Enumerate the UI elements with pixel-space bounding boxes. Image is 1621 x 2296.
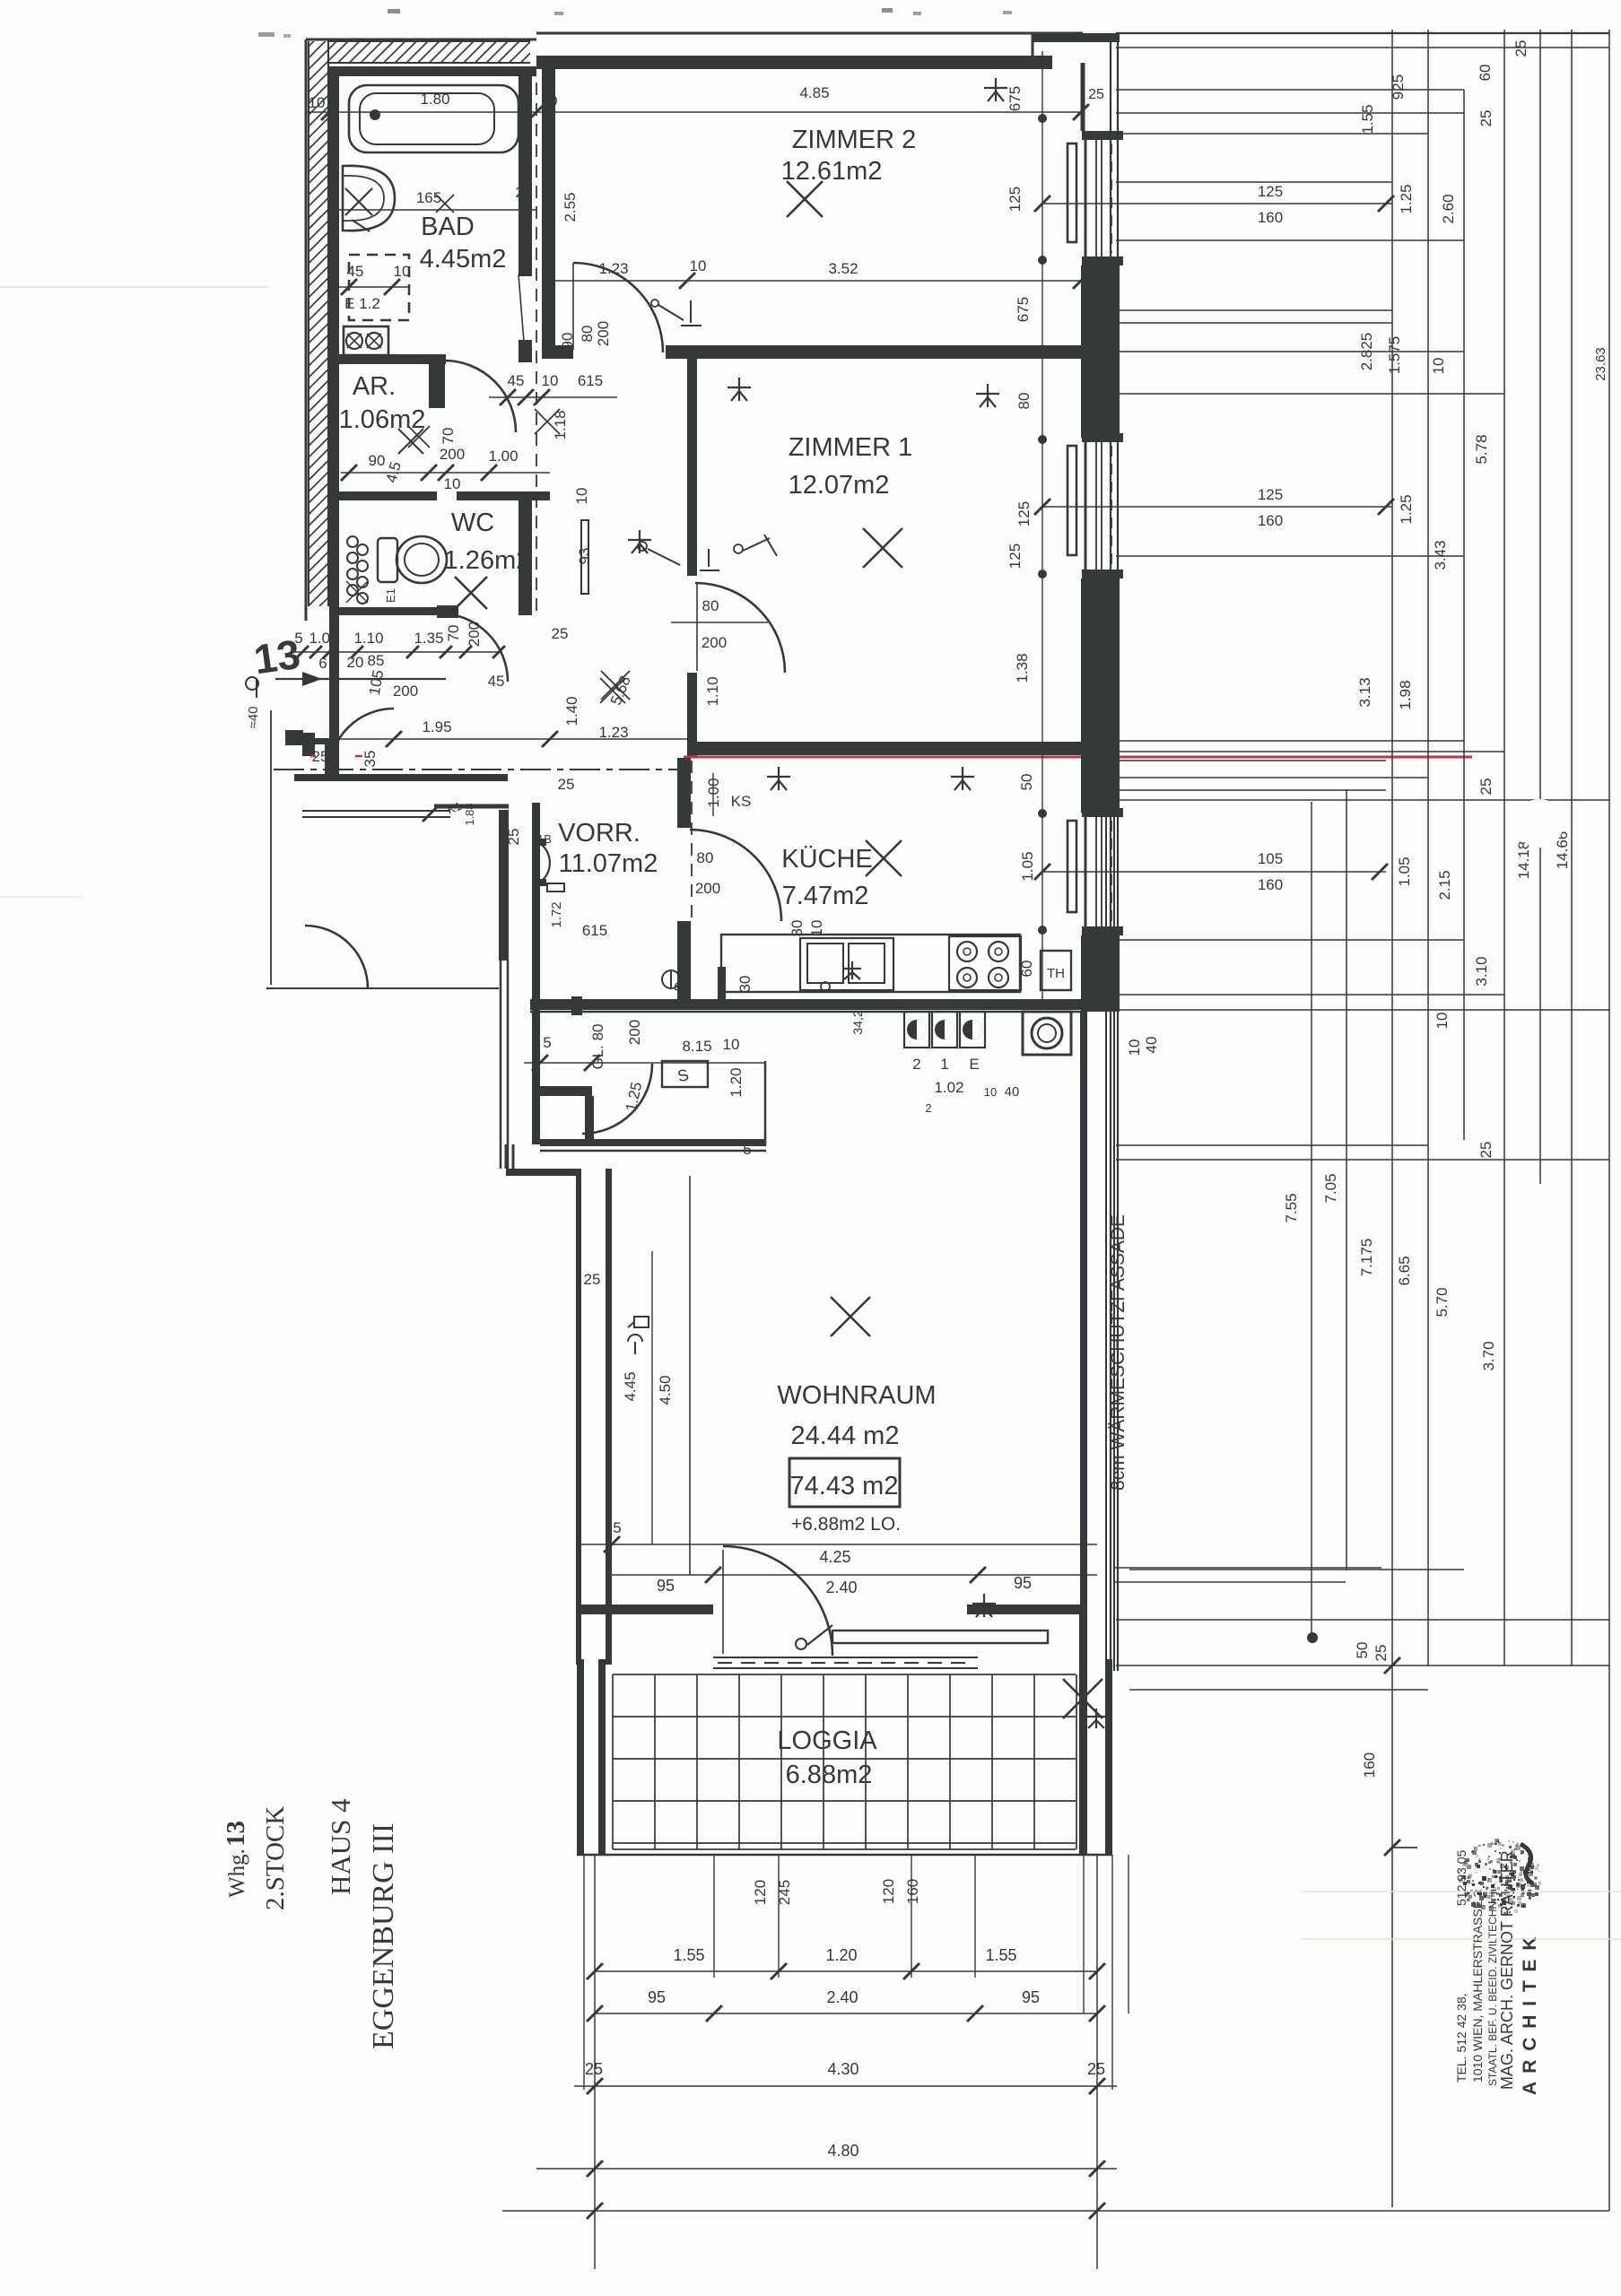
svg-text:3.52: 3.52 <box>828 260 858 277</box>
svg-text:6: 6 <box>318 655 327 672</box>
stair left line <box>270 710 272 985</box>
svg-text:1.10: 1.10 <box>704 676 721 706</box>
svg-text:A R C H I T E K: A R C H I T E K <box>1520 1935 1540 2095</box>
svg-text:4.45: 4.45 <box>622 1371 639 1401</box>
svg-text:2: 2 <box>925 1101 931 1115</box>
svg-text:90: 90 <box>369 452 386 469</box>
right wall pier 3 <box>1081 578 1120 813</box>
corridor dashed line upper <box>536 83 537 617</box>
svg-text:80: 80 <box>702 597 719 614</box>
svg-text:3.43: 3.43 <box>1432 540 1449 570</box>
right horiz lines <box>1116 181 1392 183</box>
door marks corridor <box>648 549 680 565</box>
entry arrow <box>302 672 322 686</box>
svg-text:7.05: 7.05 <box>1322 1173 1339 1203</box>
svg-text:25: 25 <box>516 184 533 201</box>
red scan line <box>684 756 1472 759</box>
svg-text:24.44 m2: 24.44 m2 <box>791 1422 900 1450</box>
svg-text:12.07m2: 12.07m2 <box>789 471 890 500</box>
svg-text:25: 25 <box>1477 110 1495 127</box>
svg-text:200: 200 <box>595 321 612 346</box>
svg-text:10: 10 <box>1434 1013 1451 1030</box>
svg-text:1.98: 1.98 <box>1397 680 1414 709</box>
svg-text:4.45m2: 4.45m2 <box>420 245 507 274</box>
svg-text:1: 1 <box>940 1056 948 1073</box>
svg-text:40: 40 <box>1143 1037 1160 1054</box>
svg-text:615: 615 <box>578 372 603 389</box>
wall bath right <box>519 75 532 276</box>
right wall top corner <box>1081 63 1085 131</box>
svg-text:40: 40 <box>1005 1084 1020 1100</box>
wall wohnraum bottom right <box>967 1605 1087 1614</box>
loggia left wall <box>577 1659 584 1855</box>
svg-text:60: 60 <box>1018 961 1035 978</box>
svg-text:1.88: 1.88 <box>463 803 476 825</box>
svg-text:TEL. 512 42 38,: TEL. 512 42 38, <box>1454 1993 1468 2083</box>
window room1 <box>1082 433 1123 442</box>
svg-text:E: E <box>969 1056 979 1073</box>
svg-text:74.43 m2: 74.43 m2 <box>790 1472 899 1500</box>
kitchen counter <box>721 935 1020 992</box>
svg-text:25: 25 <box>585 2060 603 2078</box>
svg-text:95: 95 <box>1014 1574 1032 1592</box>
survey mark <box>778 767 780 790</box>
svg-text:160: 160 <box>1258 209 1283 226</box>
wall closet right <box>764 1061 767 1146</box>
right window dims <box>1042 203 1392 204</box>
svg-text:95: 95 <box>648 1988 666 2006</box>
svg-text:85: 85 <box>368 652 385 669</box>
wohnraum dim line <box>612 1574 1097 1576</box>
svg-text:80: 80 <box>579 326 596 343</box>
svg-text:125: 125 <box>1258 183 1283 200</box>
svg-text:STAATL. BEF. U. BEEID. ZIVILTE: STAATL. BEF. U. BEEID. ZIVILTECHN. <box>1486 1899 1499 2086</box>
svg-text:WC: WC <box>451 509 494 537</box>
svg-text:125: 125 <box>1007 187 1024 212</box>
svg-text:8.15: 8.15 <box>682 1038 711 1055</box>
loggia floor tiles <box>612 1674 614 1849</box>
svg-text:5.78: 5.78 <box>1473 434 1490 464</box>
wall wohnraum right <box>1080 1012 1087 1613</box>
wall room2 left <box>542 69 555 352</box>
svg-text:512 93 05: 512 93 05 <box>1454 1850 1468 1906</box>
svg-text:MAG. ARCH. GERNOT RAUTER: MAG. ARCH. GERNOT RAUTER <box>1498 1850 1516 2090</box>
svg-text:25: 25 <box>1512 40 1529 57</box>
wc door arc <box>440 613 508 682</box>
svg-text:200: 200 <box>393 683 418 700</box>
svg-text:KÜCHE: KÜCHE <box>781 845 873 874</box>
svg-text:80: 80 <box>1015 393 1033 410</box>
svg-text:30: 30 <box>736 976 754 993</box>
svg-text:VORR.: VORR. <box>558 819 641 848</box>
kitchen door arc <box>690 830 781 921</box>
wall wc right <box>519 500 532 615</box>
svg-text:10: 10 <box>542 372 559 389</box>
right wall pier 2 <box>1081 265 1120 438</box>
svg-text:7.55: 7.55 <box>1283 1193 1300 1222</box>
loggia threshold <box>713 1657 978 1658</box>
svg-text:1.05: 1.05 <box>1019 851 1036 881</box>
top wall of bath <box>329 66 536 76</box>
punch hole <box>1515 799 1564 848</box>
loggia right wall <box>1079 1613 1087 1855</box>
outer wall vorr jog <box>505 1144 508 1169</box>
svg-text:95: 95 <box>1022 1988 1040 2006</box>
svg-text:10: 10 <box>690 257 707 274</box>
svg-text:25: 25 <box>584 1271 601 1288</box>
svg-text:1.20: 1.20 <box>728 1067 745 1097</box>
svg-text:1.55: 1.55 <box>985 1946 1016 1964</box>
svg-text:25: 25 <box>1373 1645 1390 1662</box>
wall storage/wc <box>329 491 437 500</box>
svg-text:8cm WÄRMESCHUTZFASSADE: 8cm WÄRMESCHUTZFASSADE <box>1108 1214 1129 1491</box>
svg-text:13: 13 <box>222 1821 250 1847</box>
svg-text:160: 160 <box>1361 1752 1378 1778</box>
survey mark <box>995 78 997 101</box>
svg-text:160: 160 <box>904 1879 921 1904</box>
svg-text:245: 245 <box>776 1880 793 1905</box>
svg-text:14.18: 14.18 <box>1515 841 1532 880</box>
wall kitchen bottom <box>530 999 1081 1010</box>
bath door arc <box>444 361 516 432</box>
svg-text:5: 5 <box>743 1141 751 1158</box>
svg-text:45: 45 <box>508 372 525 389</box>
svg-text:4.25: 4.25 <box>819 1548 850 1566</box>
svg-text:925: 925 <box>1390 74 1407 100</box>
svg-text:20: 20 <box>347 654 364 671</box>
svg-text:10: 10 <box>723 1036 740 1053</box>
bathtub <box>349 85 519 152</box>
bottom dim row4 <box>536 2168 1117 2170</box>
wall wohnraum left outer <box>576 1176 581 1665</box>
door z2 arc <box>573 263 663 352</box>
survey mark <box>983 1594 985 1617</box>
bottom line <box>502 2210 1609 2212</box>
svg-text:4.30: 4.30 <box>827 2060 858 2078</box>
washer in bath <box>344 326 388 355</box>
svg-text:50: 50 <box>1018 774 1035 791</box>
svg-text:1.10: 1.10 <box>353 630 383 647</box>
bottom dim row1 <box>595 1970 1097 1972</box>
entry step walls <box>285 730 303 745</box>
loggia bottom line <box>577 1854 1112 1857</box>
svg-text:1B: 1B <box>537 832 552 846</box>
wall wohnraum left inner <box>606 1169 612 1665</box>
svg-text:105: 105 <box>1258 850 1283 867</box>
bottom dim row2 <box>595 2013 1097 2014</box>
hatched exterior wall top <box>327 41 530 63</box>
lamp symbol <box>662 970 680 988</box>
left inner wall <box>329 66 339 775</box>
svg-text:160: 160 <box>1258 876 1283 893</box>
svg-text:KS: KS <box>731 793 752 810</box>
svg-text:45: 45 <box>488 673 505 690</box>
svg-text:10: 10 <box>309 94 326 111</box>
svg-text:120: 120 <box>752 1880 769 1905</box>
svg-text:2.40: 2.40 <box>826 1988 858 2006</box>
kitchen stove <box>949 936 1021 990</box>
wall between rooms 1+2 <box>542 345 573 359</box>
right verticals mid <box>1312 801 1621 803</box>
svg-text:25: 25 <box>1087 2060 1105 2078</box>
vorr 172 bracket <box>547 883 564 891</box>
svg-text:70: 70 <box>440 428 457 445</box>
svg-text:1.575: 1.575 <box>1386 336 1403 375</box>
svg-text:E 1.2: E 1.2 <box>344 295 380 312</box>
svg-text:125: 125 <box>1258 486 1283 503</box>
facade lines right <box>1105 758 1107 1671</box>
bottom dim row3 <box>574 2085 1117 2087</box>
svg-text:10: 10 <box>394 263 411 280</box>
svg-text:1010 WIEN, MAHLERSTRASSE 3: 1010 WIEN, MAHLERSTRASSE 3 <box>1470 1890 1485 2083</box>
scan artifact <box>0 286 269 288</box>
svg-text:11.07m2: 11.07m2 <box>559 849 658 878</box>
wall wc bottom / entry <box>294 774 508 781</box>
label total box <box>789 1458 900 1507</box>
svg-text:10: 10 <box>573 488 590 505</box>
window dim chain <box>1041 51 1043 1010</box>
svg-text:160: 160 <box>1258 512 1283 529</box>
svg-text:2.15: 2.15 <box>1436 870 1453 900</box>
svg-text:10: 10 <box>808 920 825 937</box>
svg-text:25: 25 <box>1477 778 1495 796</box>
svg-text:ZIMMER 1: ZIMMER 1 <box>789 433 913 462</box>
kitchen sink <box>800 938 893 990</box>
entry door arc <box>329 709 394 773</box>
svg-text:TH: TH <box>1047 966 1065 981</box>
svg-text:1.72: 1.72 <box>549 901 564 927</box>
corridor dashed kitchen <box>691 761 693 920</box>
svg-text:95: 95 <box>657 1577 675 1595</box>
hatched exterior wall left <box>309 41 328 606</box>
svg-text:1.25: 1.25 <box>1398 494 1415 524</box>
svg-text:5: 5 <box>294 630 302 647</box>
svg-text:WOHNRAUM: WOHNRAUM <box>777 1381 936 1410</box>
wall room1 left <box>687 359 697 576</box>
svg-text:675: 675 <box>1015 297 1032 322</box>
vorr door niche <box>542 845 550 881</box>
svg-text:125: 125 <box>1015 501 1033 526</box>
svg-text:10: 10 <box>984 1085 997 1099</box>
wall bath/storage <box>329 354 446 364</box>
svg-text:30: 30 <box>789 920 806 937</box>
svg-text:12.61m2: 12.61m2 <box>781 157 883 186</box>
window room2 <box>1082 131 1123 140</box>
svg-text:25: 25 <box>558 776 575 793</box>
outer wall line top-left <box>306 39 536 41</box>
svg-text:93: 93 <box>576 548 593 565</box>
survey mark <box>639 530 641 553</box>
svg-text:≈40: ≈40 <box>246 707 261 729</box>
svg-text:5.70: 5.70 <box>1434 1287 1451 1317</box>
wall closet bottom <box>540 1139 766 1146</box>
svg-text:E1: E1 <box>384 588 397 603</box>
svg-text:25: 25 <box>505 829 522 846</box>
svg-text:34,2: 34,2 <box>850 1010 865 1034</box>
top margin specks <box>388 9 400 13</box>
svg-text:ZIMMER 2: ZIMMER 2 <box>792 126 917 154</box>
svg-text:1.02: 1.02 <box>934 1079 963 1096</box>
svg-text:10: 10 <box>444 475 461 492</box>
wall vorr bottom <box>532 1086 592 1096</box>
svg-text:1.40: 1.40 <box>563 696 580 726</box>
sink square <box>1023 1012 1071 1055</box>
loggia door arc <box>723 1546 832 1656</box>
svg-text:200: 200 <box>626 1020 643 1045</box>
svg-text:1.00: 1.00 <box>488 448 518 465</box>
svg-text:2.825: 2.825 <box>1358 333 1375 371</box>
svg-text:6.88m2: 6.88m2 <box>786 1761 873 1789</box>
svg-text:7.47m2: 7.47m2 <box>782 882 869 910</box>
entry steps <box>302 810 450 812</box>
section line <box>274 769 682 770</box>
window kitchen <box>1082 808 1123 817</box>
svg-text:1.55: 1.55 <box>1359 104 1376 134</box>
svg-text:LOGGIA: LOGGIA <box>777 1726 877 1755</box>
shaft circles <box>347 536 358 547</box>
svg-text:1.35: 1.35 <box>414 630 443 647</box>
svg-text:1.00: 1.00 <box>309 630 338 647</box>
svg-text:1.23: 1.23 <box>598 724 628 741</box>
svg-text:615: 615 <box>582 922 607 939</box>
bottom verticals <box>594 1855 596 2269</box>
top wall of room 2 <box>536 56 1052 69</box>
svg-text:1.80: 1.80 <box>420 91 449 108</box>
svg-text:10: 10 <box>1430 358 1447 375</box>
radiator <box>832 1631 1048 1643</box>
svg-text:3.13: 3.13 <box>1356 677 1373 707</box>
svg-text:45: 45 <box>347 263 364 280</box>
svg-text:BAD: BAD <box>421 213 475 241</box>
loggia x mark <box>1063 1679 1102 1718</box>
right wall pier 4 <box>1081 935 1120 1012</box>
section line2 <box>691 768 1081 770</box>
svg-text:675: 675 <box>1007 86 1024 111</box>
svg-text:HAUS 4: HAUS 4 <box>325 1798 356 1895</box>
svg-text:10: 10 <box>1126 1039 1143 1057</box>
svg-text:70: 70 <box>445 625 462 642</box>
svg-text:2.STOCK: 2.STOCK <box>261 1806 290 1910</box>
svg-text:6.65: 6.65 <box>1396 1256 1413 1285</box>
washbasin <box>343 166 395 230</box>
survey mark <box>962 767 963 790</box>
svg-text:1.26m2: 1.26m2 <box>444 546 531 575</box>
wall room1/kitchen <box>687 742 1081 755</box>
svg-text:3.10: 3.10 <box>1473 956 1490 986</box>
svg-text:4.85: 4.85 <box>799 84 829 101</box>
svg-text:2.60: 2.60 <box>1440 194 1457 223</box>
svg-text:3.70: 3.70 <box>1480 1341 1497 1370</box>
svg-text:80: 80 <box>697 849 714 866</box>
stamp eagle <box>1493 1887 1496 1891</box>
wall kitchen left upper <box>677 758 691 828</box>
svg-text:5: 5 <box>613 1519 621 1536</box>
stair arc <box>305 926 368 988</box>
svg-text:60: 60 <box>1477 65 1494 82</box>
electric symbol wohnraum <box>634 1317 649 1327</box>
wall wohnraum bottom left <box>581 1605 713 1614</box>
svg-text:120: 120 <box>880 1879 897 1904</box>
svg-text:4.50: 4.50 <box>657 1375 674 1405</box>
survey mark <box>987 384 989 407</box>
svg-text:35: 35 <box>362 751 379 768</box>
svg-text:+6.88m2 LO.: +6.88m2 LO. <box>791 1514 901 1535</box>
svg-text:200: 200 <box>695 880 720 897</box>
svg-text:125: 125 <box>1007 544 1024 569</box>
door z1 arc <box>695 583 785 673</box>
survey mark <box>738 378 740 401</box>
right top lines <box>1116 32 1609 34</box>
svg-text:EGGENBURG III: EGGENBURG III <box>367 1823 400 2049</box>
door marks z2 <box>658 305 684 320</box>
svg-text:165: 165 <box>416 189 441 206</box>
svg-text:200: 200 <box>702 634 727 651</box>
svg-text:1.55: 1.55 <box>673 1946 704 1964</box>
svg-text:200: 200 <box>440 446 465 463</box>
svg-text:1.25: 1.25 <box>1398 184 1415 213</box>
svg-text:D: D <box>672 981 687 991</box>
toilet <box>378 538 397 582</box>
svg-text:4.80: 4.80 <box>827 2142 858 2160</box>
wall vorr partition <box>532 803 540 1144</box>
svg-text:50: 50 <box>1354 1642 1371 1659</box>
svg-text:1.38: 1.38 <box>1014 653 1031 683</box>
svg-text:2.40: 2.40 <box>825 1578 857 1596</box>
svg-text:23.63: 23.63 <box>1593 347 1608 381</box>
svg-text:25: 25 <box>1088 87 1104 102</box>
svg-text:200: 200 <box>466 622 483 647</box>
svg-text:25: 25 <box>1477 1142 1495 1159</box>
svg-text:1.05: 1.05 <box>1396 857 1413 886</box>
boiler dashed box <box>349 255 409 320</box>
kitchen TH box <box>1041 951 1071 990</box>
svg-text:5: 5 <box>543 1034 551 1051</box>
outer line top <box>536 32 1083 35</box>
closet door arc <box>582 1064 652 1134</box>
washer group <box>904 1012 929 1048</box>
closet S box <box>662 1061 708 1087</box>
svg-text:2: 2 <box>912 1056 920 1073</box>
top corner pillar <box>1033 33 1120 42</box>
svg-text:25: 25 <box>552 625 569 642</box>
svg-text:7.175: 7.175 <box>1358 1239 1375 1277</box>
svg-text:AR.: AR. <box>353 372 396 401</box>
dim line left col <box>689 1176 691 1575</box>
svg-text:1.18: 1.18 <box>552 410 569 439</box>
svg-text:1.20: 1.20 <box>825 1946 857 1964</box>
svg-text:Whg.: Whg. <box>225 1848 249 1898</box>
svg-text:1.95: 1.95 <box>422 718 451 735</box>
svg-text:2.55: 2.55 <box>562 192 579 222</box>
